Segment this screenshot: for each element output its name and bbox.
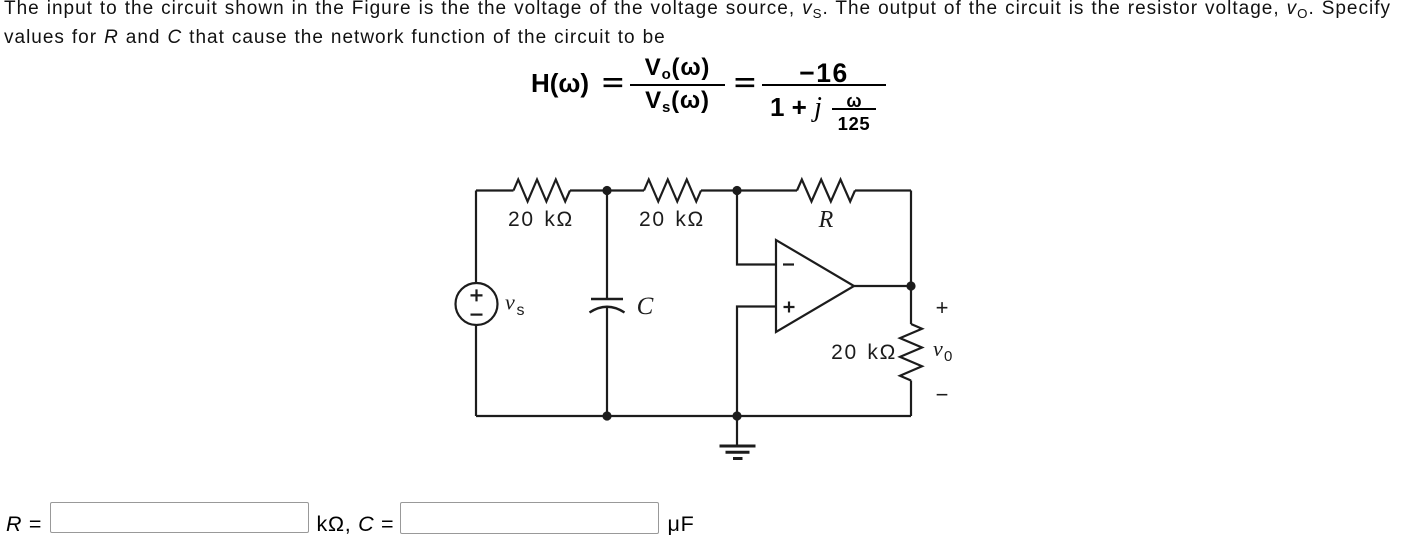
svg-text:20 kΩ: 20 kΩ <box>508 208 574 231</box>
node bottom capacitor junction dot <box>602 411 611 420</box>
paragraph problem statement <box>4 0 1391 52</box>
svg-text:v: v <box>505 290 515 315</box>
node A junction dot <box>602 186 611 195</box>
op-amp U1 <box>776 240 854 332</box>
resistor R1 20k <box>514 180 571 202</box>
answer row <box>6 512 42 537</box>
input box R <box>50 502 309 533</box>
capacitor C <box>590 299 625 313</box>
wire R1 to node A <box>570 189 644 191</box>
wire right vertical down to output node <box>910 191 912 287</box>
svg-text:R: R <box>818 207 834 233</box>
equation H(w) = Vo(w)/Vs(w) = -16/(1+jw/125) <box>531 70 589 96</box>
svg-text:s: s <box>517 302 525 319</box>
wire node A down to capacitor <box>606 191 608 300</box>
svg-text:20 kΩ: 20 kΩ <box>639 208 705 231</box>
wire top left <box>476 189 514 191</box>
voltage source vs <box>456 283 498 325</box>
svg-text:−: − <box>936 382 949 407</box>
wire op-amp output to node C <box>854 285 911 287</box>
resistor RL 20k vertical <box>900 324 922 380</box>
label 20 kOhm R2 <box>639 208 705 231</box>
svg-text:v: v <box>933 336 943 361</box>
label vs <box>505 290 525 320</box>
wire R to top right corner <box>855 189 911 191</box>
svg-text:C: C <box>637 293 654 320</box>
wire load resistor to bottom rail <box>910 381 912 417</box>
wire R2 to node B <box>701 189 797 191</box>
svg-text:+: + <box>936 295 949 320</box>
wire capacitor to bottom rail <box>606 307 608 417</box>
label C <box>637 293 654 320</box>
wire ground node up to noninverting input <box>737 307 776 417</box>
label vo <box>933 336 952 365</box>
fraction -16 / (1 + j w/125) <box>762 60 886 86</box>
ground symbol <box>720 416 756 459</box>
node B junction dot <box>732 186 741 195</box>
label 20 kOhm RL <box>831 341 897 364</box>
svg-text:0: 0 <box>944 348 952 365</box>
wire left vertical to source <box>475 191 477 284</box>
wire bottom rail <box>476 415 911 417</box>
label 20 kOhm R1 <box>508 208 574 231</box>
wire node B down to inverting input <box>737 191 776 265</box>
label R <box>818 207 834 233</box>
resistor R2 20k <box>644 180 701 202</box>
label minus output <box>936 382 949 407</box>
fraction Vo/Vs <box>630 56 725 80</box>
input box C <box>400 502 659 534</box>
resistor R feedback <box>797 180 855 202</box>
svg-text:20 kΩ: 20 kΩ <box>831 341 897 364</box>
label plus output <box>936 295 949 320</box>
node ground junction dot <box>732 411 741 420</box>
wire output node down to load resistor <box>910 286 912 324</box>
wire source to bottom left corner <box>475 325 477 416</box>
node C output junction dot <box>906 281 915 290</box>
